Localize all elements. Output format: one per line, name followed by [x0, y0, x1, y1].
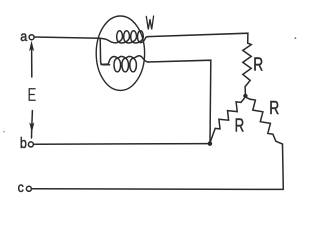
wire R3 to bottom right corner [273, 134, 283, 189]
motor housing ellipse [96, 16, 144, 90]
svg-text:a: a [20, 28, 27, 44]
scan speck [295, 37, 297, 39]
svg-text:R: R [269, 97, 279, 118]
svg-text:R: R [235, 115, 245, 135]
link wire between windings (left) [100, 39, 109, 65]
wire bottom winding to junction [148, 60, 211, 143]
resistor R3 right diagonal [247, 98, 251, 100]
inductor winding top (4 loops) [100, 31, 148, 43]
node junction top [244, 94, 248, 98]
svg-text:R: R [253, 54, 263, 75]
svg-text:c: c [18, 180, 24, 195]
wire a to motor [34, 37, 100, 38]
terminal a [29, 35, 34, 40]
label E [29, 89, 35, 101]
label W [146, 16, 153, 29]
inductor winding bottom (3 loops) [101, 56, 148, 72]
scan speck left [3, 131, 5, 133]
wire top winding to resistor R1 [148, 33, 248, 43]
svg-text:b: b [20, 135, 27, 152]
wire b to node [34, 143, 210, 146]
arrow E up [31, 45, 33, 78]
terminal b [28, 142, 33, 147]
node junction bottom left [208, 142, 212, 146]
resistor R2 left diagonal [241, 99, 244, 103]
terminal c [26, 186, 31, 191]
arrow E down [31, 111, 34, 125]
wire c bottom [32, 188, 284, 191]
resistor R1 vertical [243, 43, 252, 94]
